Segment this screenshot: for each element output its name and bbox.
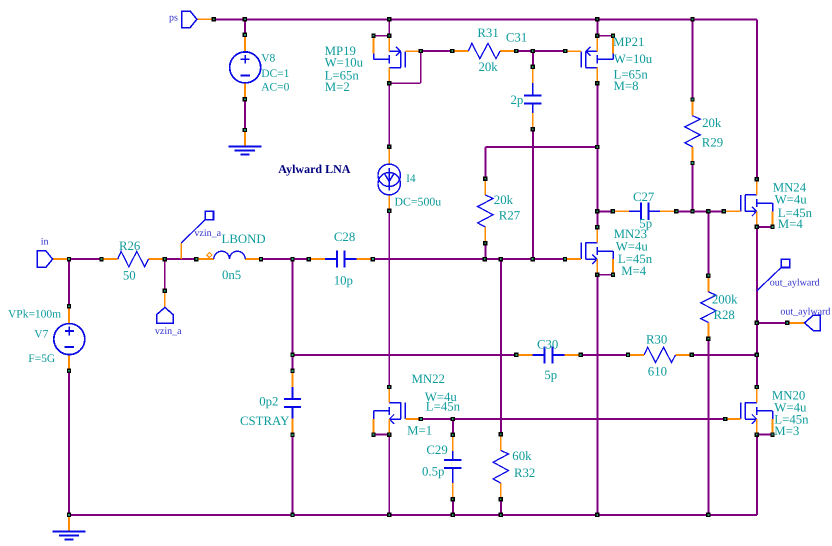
svg-text:VPk=100m: VPk=100m — [8, 309, 61, 321]
svg-text:L=45n: L=45n — [426, 400, 461, 414]
svg-text:R31: R31 — [477, 26, 498, 40]
svg-text:C27: C27 — [633, 190, 655, 204]
svg-text:C30: C30 — [537, 337, 558, 351]
svg-text:Aylward LNA: Aylward LNA — [278, 162, 350, 176]
svg-text:R26: R26 — [119, 239, 141, 253]
svg-text:vzin_a: vzin_a — [194, 228, 221, 239]
svg-text:0.5p: 0.5p — [422, 465, 444, 479]
svg-text:60k: 60k — [512, 449, 532, 463]
svg-text:C29: C29 — [426, 443, 447, 457]
svg-text:V7: V7 — [34, 329, 48, 341]
svg-text:M=1: M=1 — [407, 424, 432, 438]
svg-text:20k: 20k — [702, 116, 722, 130]
svg-text:M=3: M=3 — [774, 424, 799, 438]
svg-text:C28: C28 — [334, 230, 355, 244]
svg-text:out_aylward: out_aylward — [780, 306, 830, 317]
svg-text:ps: ps — [169, 13, 178, 24]
svg-text:DC=1: DC=1 — [261, 68, 289, 80]
svg-text:M=4: M=4 — [778, 217, 804, 231]
svg-text:2p: 2p — [511, 93, 524, 107]
svg-text:0p2: 0p2 — [259, 395, 278, 409]
svg-text:10p: 10p — [334, 274, 353, 288]
svg-text:V8: V8 — [261, 52, 275, 64]
svg-text:20k: 20k — [494, 193, 514, 207]
svg-text:50: 50 — [123, 268, 136, 282]
svg-text:M=4: M=4 — [621, 264, 647, 278]
svg-text:M=8: M=8 — [614, 79, 639, 93]
svg-text:M=2: M=2 — [325, 80, 350, 94]
svg-text:R29: R29 — [702, 135, 723, 149]
svg-text:LBOND: LBOND — [222, 232, 266, 246]
svg-text:out_aylward: out_aylward — [770, 277, 820, 288]
svg-text:R27: R27 — [499, 209, 521, 223]
svg-text:vzin_a: vzin_a — [155, 326, 182, 337]
svg-text:MP21: MP21 — [613, 35, 644, 49]
svg-text:610: 610 — [648, 364, 667, 378]
svg-text:in: in — [41, 237, 49, 248]
svg-text:DC=500u: DC=500u — [395, 195, 442, 209]
svg-text:C31: C31 — [506, 31, 527, 45]
svg-text:R30: R30 — [646, 333, 667, 347]
svg-text:W=10u: W=10u — [614, 52, 653, 66]
svg-text:F=5G: F=5G — [28, 353, 55, 365]
svg-text:CSTRAY: CSTRAY — [240, 414, 289, 428]
svg-text:R28: R28 — [714, 308, 735, 322]
svg-text:0n5: 0n5 — [222, 268, 241, 282]
svg-text:W=4u: W=4u — [775, 193, 808, 207]
svg-text:R32: R32 — [514, 466, 535, 480]
svg-text:200k: 200k — [712, 293, 738, 307]
svg-text:20k: 20k — [479, 60, 499, 74]
svg-text:I4: I4 — [406, 173, 416, 185]
svg-text:AC=0: AC=0 — [261, 81, 289, 93]
svg-text:MN22: MN22 — [412, 372, 445, 386]
svg-text:5p: 5p — [544, 368, 557, 382]
